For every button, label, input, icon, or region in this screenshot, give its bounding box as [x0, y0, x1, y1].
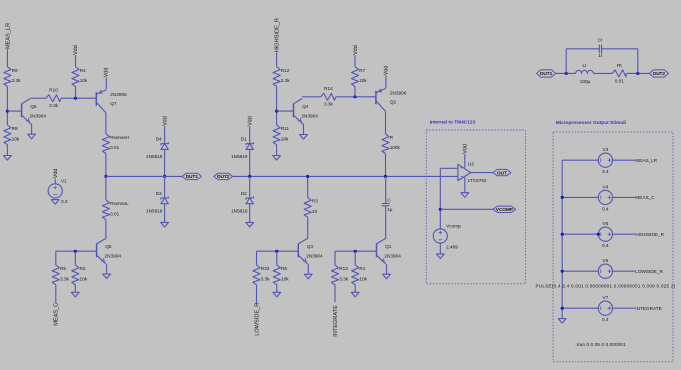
svg-text:2N3906: 2N3906	[110, 92, 127, 97]
svg-text:R3: R3	[312, 199, 318, 204]
svg-text:3.3k: 3.3k	[12, 78, 22, 83]
svg-text:Ct: Ct	[598, 38, 603, 43]
svg-text:MEAS_LR: MEAS_LR	[635, 158, 657, 163]
svg-text:RsenseH: RsenseH	[110, 135, 129, 140]
svg-text:HIGHSIDE_R: HIGHSIDE_R	[275, 18, 281, 52]
svg-text:V5: V5	[603, 221, 609, 226]
svg-text:OUT: OUT	[497, 170, 507, 176]
svg-text:3.3k: 3.3k	[339, 276, 349, 281]
svg-text:Q7: Q7	[110, 101, 117, 106]
svg-text:R6: R6	[281, 266, 287, 271]
svg-text:R13: R13	[339, 266, 348, 271]
svg-text:R1: R1	[359, 266, 365, 271]
svg-text:Q5: Q5	[105, 244, 112, 249]
svg-text:Vdd: Vdd	[103, 68, 109, 78]
svg-text:10k: 10k	[80, 78, 88, 83]
svg-text:2N3904: 2N3904	[306, 254, 323, 259]
svg-text:V3: V3	[603, 147, 609, 152]
svg-text:R4: R4	[80, 68, 86, 73]
svg-text:D2: D2	[241, 191, 247, 196]
svg-text:.tran 0 0.05 0 0.000001: .tran 0 0.05 0 0.000001	[575, 342, 626, 347]
svg-text:1N5819: 1N5819	[146, 208, 163, 213]
svg-text:R8: R8	[12, 126, 18, 131]
svg-text:R12: R12	[281, 68, 290, 73]
svg-text:MEAS_C: MEAS_C	[635, 195, 655, 200]
svg-text:0.4: 0.4	[602, 317, 609, 322]
svg-text:2N3906: 2N3906	[390, 91, 407, 96]
svg-text:R2: R2	[80, 266, 86, 271]
svg-text:2N3904: 2N3904	[384, 254, 401, 259]
svg-text:R5: R5	[60, 266, 66, 271]
svg-text:D4: D4	[156, 137, 162, 142]
svg-text:2.4: 2.4	[602, 169, 609, 174]
svg-text:Vdd: Vdd	[463, 144, 469, 154]
svg-text:DUT2: DUT2	[217, 174, 230, 180]
svg-text:10k: 10k	[80, 276, 88, 281]
svg-text:Vdd: Vdd	[73, 45, 79, 55]
svg-text:1f: 1f	[598, 53, 603, 58]
svg-text:1µ: 1µ	[387, 207, 393, 212]
svg-text:Q4: Q4	[302, 104, 309, 109]
svg-text:10k: 10k	[281, 136, 289, 141]
svg-text:Vdd: Vdd	[163, 116, 169, 126]
svg-text:DUT1: DUT1	[186, 174, 199, 180]
svg-text:R10: R10	[49, 88, 58, 93]
svg-text:3.3: 3.3	[61, 199, 68, 204]
svg-text:Q6: Q6	[30, 104, 37, 109]
svg-text:D3: D3	[156, 191, 162, 196]
svg-text:DUT1: DUT1	[540, 71, 553, 77]
svg-text:33: 33	[312, 209, 318, 214]
svg-text:INTEGRATE: INTEGRATE	[635, 306, 661, 311]
svg-text:Vdd: Vdd	[248, 116, 254, 126]
svg-text:0.4: 0.4	[602, 206, 609, 211]
svg-text:R33: R33	[261, 266, 270, 271]
svg-text:R9: R9	[12, 68, 18, 73]
svg-text:V6: V6	[603, 258, 609, 263]
svg-text:Q1: Q1	[385, 244, 392, 249]
svg-text:3.3k: 3.3k	[60, 276, 70, 281]
svg-text:Rt: Rt	[617, 63, 622, 68]
svg-text:0.4: 0.4	[602, 243, 609, 248]
svg-text:1N5819: 1N5819	[231, 154, 248, 159]
svg-text:MEAS_LR: MEAS_LR	[6, 23, 12, 49]
svg-text:100k: 100k	[390, 145, 401, 150]
svg-text:Vcomp: Vcomp	[446, 224, 461, 229]
svg-text:Vdd: Vdd	[384, 66, 390, 76]
svg-text:LOWSIDE_R: LOWSIDE_R	[635, 269, 663, 274]
svg-text:Microprocessor Output Stimuli: Microprocessor Output Stimuli	[556, 120, 626, 126]
svg-text:R14: R14	[324, 86, 333, 91]
svg-text:Q2: Q2	[390, 100, 397, 105]
svg-text:10k: 10k	[359, 276, 367, 281]
svg-text:2N3904: 2N3904	[105, 254, 122, 259]
svg-text:R7: R7	[359, 68, 365, 73]
svg-text:1N5819: 1N5819	[231, 208, 248, 213]
svg-text:10k: 10k	[359, 78, 367, 83]
svg-text:3.3k: 3.3k	[324, 102, 334, 107]
svg-text:1N5819: 1N5819	[146, 154, 163, 159]
svg-text:0.01: 0.01	[110, 211, 120, 216]
svg-text:0.01: 0.01	[110, 145, 120, 150]
svg-text:Lt: Lt	[582, 63, 587, 68]
svg-text:2N3904: 2N3904	[301, 114, 318, 119]
svg-text:100µ: 100µ	[580, 79, 591, 84]
svg-text:V4: V4	[603, 184, 609, 189]
svg-text:3.3k: 3.3k	[281, 78, 291, 83]
svg-text:VCOMP: VCOMP	[496, 207, 514, 213]
svg-text:Vdd: Vdd	[353, 45, 359, 55]
svg-text:HIGHSIDE_R: HIGHSIDE_R	[635, 232, 664, 237]
svg-text:LTC6752: LTC6752	[468, 178, 487, 183]
svg-text:Vdd: Vdd	[53, 169, 59, 179]
svg-text:10k: 10k	[281, 276, 289, 281]
svg-text:LOWSIDE_R: LOWSIDE_R	[255, 303, 261, 336]
svg-text:Q3: Q3	[307, 244, 314, 249]
svg-text:INTEGRATE: INTEGRATE	[333, 305, 339, 337]
svg-text:V7: V7	[603, 295, 609, 300]
svg-text:10k: 10k	[12, 136, 20, 141]
svg-text:R11: R11	[281, 126, 290, 131]
svg-text:Internal to TM4C123: Internal to TM4C123	[430, 120, 476, 126]
svg-text:3.3k: 3.3k	[261, 276, 271, 281]
svg-text:2.469: 2.469	[446, 244, 458, 249]
svg-text:MEAS_C: MEAS_C	[53, 303, 59, 326]
svg-text:D1: D1	[241, 137, 247, 142]
svg-text:2N3904: 2N3904	[30, 114, 47, 119]
svg-text:PULSE(0.4 2.4 0.001 0.00000001: PULSE(0.4 2.4 0.001 0.00000001 0.0000000…	[536, 284, 676, 289]
svg-text:0.01: 0.01	[615, 78, 625, 83]
svg-text:U2: U2	[468, 162, 474, 167]
svg-text:V1: V1	[61, 179, 67, 184]
svg-text:RsenseL: RsenseL	[110, 201, 129, 206]
svg-text:3.3k: 3.3k	[49, 103, 59, 108]
svg-text:DUT2: DUT2	[653, 71, 666, 77]
